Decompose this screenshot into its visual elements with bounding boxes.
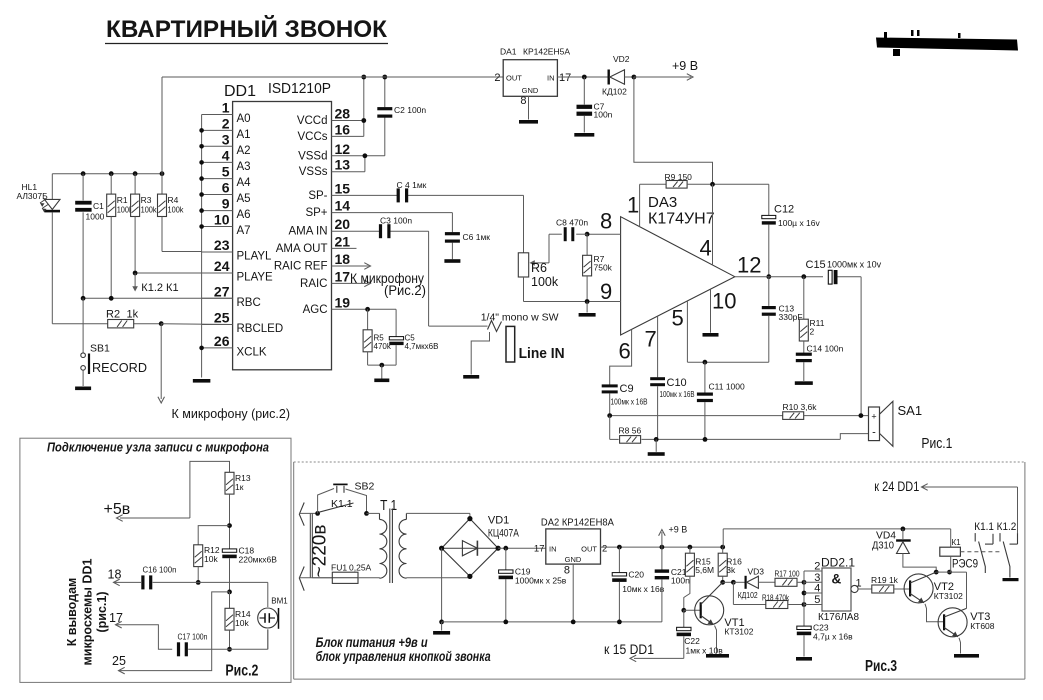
svg-text:VCCs: VCCs xyxy=(297,131,327,143)
svg-text:9: 9 xyxy=(222,196,230,212)
svg-text:RECORD: RECORD xyxy=(92,360,147,375)
svg-text:(Рис.2): (Рис.2) xyxy=(384,283,426,298)
svg-text:8: 8 xyxy=(564,565,570,577)
svg-text:100µ x 16v: 100µ x 16v xyxy=(778,218,821,228)
svg-text:Рис.1: Рис.1 xyxy=(921,435,952,452)
svg-text:A0: A0 xyxy=(237,113,251,125)
svg-text:К1: К1 xyxy=(952,538,962,547)
svg-text:R1: R1 xyxy=(117,195,128,205)
svg-text:RBCLED: RBCLED xyxy=(237,323,284,335)
svg-text:C22: C22 xyxy=(684,636,700,646)
svg-text:C15: C15 xyxy=(806,259,826,271)
svg-text:(рис.1): (рис.1) xyxy=(95,591,109,632)
svg-text:24: 24 xyxy=(214,258,230,274)
svg-text:100n: 100n xyxy=(594,110,613,120)
svg-text:R8 56: R8 56 xyxy=(619,426,642,436)
svg-text:RAIC: RAIC xyxy=(300,278,327,290)
svg-text:R18 470k: R18 470k xyxy=(762,593,790,603)
svg-text:A6: A6 xyxy=(237,209,251,221)
svg-text:XCLK: XCLK xyxy=(237,346,267,358)
svg-text:К176ЛА8: К176ЛА8 xyxy=(818,611,859,623)
svg-text:GND: GND xyxy=(522,86,539,95)
svg-text:4: 4 xyxy=(222,147,230,163)
svg-text:SB1: SB1 xyxy=(90,343,110,355)
svg-text:8: 8 xyxy=(520,95,526,107)
svg-text:~220в: ~220в xyxy=(309,525,330,578)
svg-text:6: 6 xyxy=(619,339,631,364)
svg-text:100k: 100k xyxy=(141,205,158,215)
svg-text:A4: A4 xyxy=(237,177,252,189)
svg-text:R3: R3 xyxy=(141,195,152,205)
svg-text:КР142ЕН5А: КР142ЕН5А xyxy=(523,47,570,57)
svg-text:R2: R2 xyxy=(106,309,120,321)
svg-text:КВАРТИРНЫЙ ЗВОНОК: КВАРТИРНЫЙ ЗВОНОК xyxy=(106,15,387,43)
svg-text:C17 100n: C17 100n xyxy=(178,632,208,642)
svg-text:1: 1 xyxy=(222,100,230,116)
svg-text:4: 4 xyxy=(700,236,712,261)
svg-text:C8 470n: C8 470n xyxy=(556,218,588,228)
svg-text:КД102: КД102 xyxy=(602,87,627,97)
svg-text:4,7мкх6В: 4,7мкх6В xyxy=(405,342,439,351)
svg-text:19: 19 xyxy=(335,294,351,310)
svg-text:AMA IN: AMA IN xyxy=(289,226,328,238)
svg-text:10k: 10k xyxy=(204,554,218,564)
svg-text:5,6М: 5,6М xyxy=(695,565,714,575)
svg-text:IN: IN xyxy=(547,74,555,83)
svg-text:1: 1 xyxy=(627,193,639,218)
svg-text:к 24 DD1: к 24 DD1 xyxy=(874,479,919,494)
svg-text:20: 20 xyxy=(335,216,351,232)
svg-text:SA1: SA1 xyxy=(898,403,923,418)
svg-text:КТ608: КТ608 xyxy=(970,621,995,631)
svg-text:750k: 750k xyxy=(594,263,613,273)
svg-text:27: 27 xyxy=(214,283,230,299)
svg-text:DA2 КР142ЕН8А: DA2 КР142ЕН8А xyxy=(541,517,614,529)
svg-text:25: 25 xyxy=(112,654,126,668)
svg-text:КЦ407А: КЦ407А xyxy=(488,528,519,540)
svg-text:C11 1000: C11 1000 xyxy=(709,382,746,392)
svg-text:PLAYL: PLAYL xyxy=(237,251,273,263)
svg-text:R19 1k: R19 1k xyxy=(871,575,899,585)
svg-text:2: 2 xyxy=(602,544,607,555)
svg-text:8: 8 xyxy=(600,209,612,234)
svg-text:AGC: AGC xyxy=(303,304,328,316)
svg-text:6: 6 xyxy=(222,180,230,196)
svg-text:OUT: OUT xyxy=(581,545,597,554)
svg-text:10: 10 xyxy=(214,212,230,228)
svg-text:T 1: T 1 xyxy=(380,498,397,514)
svg-text:9: 9 xyxy=(600,279,612,304)
svg-text:28: 28 xyxy=(335,106,351,122)
svg-text:SB2: SB2 xyxy=(355,481,375,493)
svg-text:C9: C9 xyxy=(620,383,634,395)
svg-text:SP+: SP+ xyxy=(305,207,327,219)
svg-text:220мкх6В: 220мкх6В xyxy=(239,555,278,565)
svg-text:A2: A2 xyxy=(237,145,251,157)
svg-text:1/4" mono w SW: 1/4" mono w SW xyxy=(481,312,559,324)
svg-text:17: 17 xyxy=(534,544,545,555)
svg-text:IN: IN xyxy=(549,545,557,554)
svg-text:25: 25 xyxy=(214,310,230,326)
svg-text:18: 18 xyxy=(335,251,351,267)
svg-text:470k: 470k xyxy=(374,342,392,351)
svg-text:C 4 1мк: C 4 1мк xyxy=(397,180,427,190)
svg-text:4,7µ x 16в: 4,7µ x 16в xyxy=(813,632,853,642)
svg-text:5: 5 xyxy=(222,164,230,180)
svg-text:100k: 100k xyxy=(168,205,185,215)
svg-text:C6 1мк: C6 1мк xyxy=(463,232,491,242)
svg-text:R6: R6 xyxy=(531,261,547,275)
svg-text:7: 7 xyxy=(645,327,657,352)
svg-text:4: 4 xyxy=(814,583,820,595)
svg-text:21: 21 xyxy=(335,233,351,249)
svg-text:&: & xyxy=(832,572,842,587)
svg-text:0,25A: 0,25A xyxy=(349,563,372,573)
svg-text:VD2: VD2 xyxy=(613,54,630,64)
svg-text:К1.2 К1: К1.2 К1 xyxy=(141,282,178,294)
svg-text:Рис.2: Рис.2 xyxy=(225,663,258,680)
svg-text:C10: C10 xyxy=(667,377,687,389)
svg-text:-: - xyxy=(872,427,876,439)
svg-text:+9 В: +9 В xyxy=(669,525,688,535)
svg-text:1: 1 xyxy=(856,578,862,590)
svg-text:КТ3102: КТ3102 xyxy=(724,627,753,637)
svg-text:A1: A1 xyxy=(237,129,251,141)
svg-text:14: 14 xyxy=(335,198,351,214)
svg-text:1000мк x 25в: 1000мк x 25в xyxy=(515,576,567,586)
svg-text:FU1: FU1 xyxy=(331,563,347,573)
svg-text:микросхемы DD1: микросхемы DD1 xyxy=(81,559,95,666)
svg-text:C2 100n: C2 100n xyxy=(394,105,426,115)
svg-text:BM1: BM1 xyxy=(271,597,288,606)
svg-text:C16 100n: C16 100n xyxy=(143,565,177,575)
svg-text:1000: 1000 xyxy=(86,212,105,222)
svg-text:100k: 100k xyxy=(531,275,559,289)
svg-text:10мк x 16в: 10мк x 16в xyxy=(622,584,664,594)
svg-text:DD2.1: DD2.1 xyxy=(821,556,855,570)
svg-text:26: 26 xyxy=(214,333,230,349)
svg-text:13: 13 xyxy=(335,157,351,173)
svg-text:15: 15 xyxy=(335,180,351,196)
svg-text:DD1: DD1 xyxy=(224,83,256,100)
svg-text:A5: A5 xyxy=(237,193,251,205)
svg-text:VSSs: VSSs xyxy=(299,166,328,178)
svg-text:10k: 10k xyxy=(235,618,249,628)
svg-text:3k: 3k xyxy=(726,565,736,575)
svg-text:5: 5 xyxy=(672,306,684,331)
svg-text:17: 17 xyxy=(559,72,571,84)
svg-text:12: 12 xyxy=(335,141,351,157)
svg-text:C12: C12 xyxy=(774,204,794,216)
svg-text:РЭС9: РЭС9 xyxy=(952,559,978,571)
svg-text:A7: A7 xyxy=(237,225,251,237)
svg-text:5: 5 xyxy=(814,594,820,606)
svg-text:2: 2 xyxy=(810,327,815,337)
svg-text:Рис.3: Рис.3 xyxy=(865,658,897,675)
svg-text:Подключение узла записи с микр: Подключение узла записи с микрофона xyxy=(47,440,269,455)
svg-text:100n: 100n xyxy=(671,576,690,586)
svg-text:R9 150: R9 150 xyxy=(665,172,693,182)
svg-text:1к: 1к xyxy=(235,482,244,492)
svg-text:2: 2 xyxy=(814,561,820,573)
svg-text:2: 2 xyxy=(222,115,230,131)
svg-text:Line IN: Line IN xyxy=(519,345,565,362)
svg-text:VD1: VD1 xyxy=(488,515,509,527)
svg-text:17: 17 xyxy=(335,268,351,284)
svg-text:10: 10 xyxy=(712,289,736,314)
svg-text:DA1: DA1 xyxy=(500,47,517,57)
svg-text:R10 3,6k: R10 3,6k xyxy=(783,402,818,412)
svg-text:C1: C1 xyxy=(93,201,104,211)
svg-text:PLAYE: PLAYE xyxy=(237,272,274,284)
svg-text:17: 17 xyxy=(109,611,123,625)
svg-text:100мк x 16В: 100мк x 16В xyxy=(660,389,695,399)
svg-text:C3 100n: C3 100n xyxy=(380,216,412,226)
svg-text:12: 12 xyxy=(737,253,761,278)
svg-text:+9 В: +9 В xyxy=(672,59,698,73)
svg-text:AMA OUT: AMA OUT xyxy=(276,243,328,255)
svg-text:АЛ307Б: АЛ307Б xyxy=(17,191,49,201)
svg-text:100мк x 16В: 100мк x 16В xyxy=(611,397,648,407)
svg-text:К1.1 К1.2: К1.1 К1.2 xyxy=(974,521,1016,533)
svg-text:C20: C20 xyxy=(628,570,644,580)
svg-text:C14 100n: C14 100n xyxy=(807,344,844,354)
svg-text:блок управления кнопкой звонка: блок управления кнопкой звонка xyxy=(316,648,491,664)
svg-text:VD3: VD3 xyxy=(748,567,765,577)
svg-text:к 15 DD1: к 15 DD1 xyxy=(604,642,654,657)
svg-text:К выводам: К выводам xyxy=(65,578,79,647)
svg-text:Д310: Д310 xyxy=(872,541,894,552)
svg-text:VCCd: VCCd xyxy=(297,115,328,127)
svg-text:R4: R4 xyxy=(168,195,179,205)
svg-text:1000мк x 10v: 1000мк x 10v xyxy=(827,260,882,270)
svg-text:3: 3 xyxy=(222,131,230,147)
svg-text:OUT: OUT xyxy=(506,74,522,83)
svg-text:RAIC REF: RAIC REF xyxy=(274,261,328,273)
svg-text:DA3: DA3 xyxy=(648,194,677,211)
svg-text:КТ3102: КТ3102 xyxy=(934,591,963,601)
svg-text:КД102: КД102 xyxy=(738,591,758,600)
svg-text:RBC: RBC xyxy=(237,297,261,309)
svg-text:SP-: SP- xyxy=(308,190,327,202)
svg-text:K1.1: K1.1 xyxy=(331,498,353,510)
svg-text:VSSd: VSSd xyxy=(298,150,327,162)
svg-text:+: + xyxy=(871,412,876,422)
svg-text:GND: GND xyxy=(565,555,582,564)
svg-text:К микрофону (рис.2): К микрофону (рис.2) xyxy=(172,407,291,421)
svg-text:К174УН7: К174УН7 xyxy=(648,211,715,228)
svg-text:23: 23 xyxy=(214,237,230,253)
svg-text:1мк x 10в: 1мк x 10в xyxy=(686,646,724,656)
svg-text:A3: A3 xyxy=(237,161,251,173)
svg-text:1k: 1k xyxy=(127,309,139,321)
svg-text:+5в: +5в xyxy=(104,501,131,518)
svg-text:2: 2 xyxy=(494,72,500,84)
svg-text:R17 100: R17 100 xyxy=(775,569,800,579)
svg-text:16: 16 xyxy=(335,121,351,137)
svg-text:ISD1210P: ISD1210P xyxy=(268,80,331,97)
